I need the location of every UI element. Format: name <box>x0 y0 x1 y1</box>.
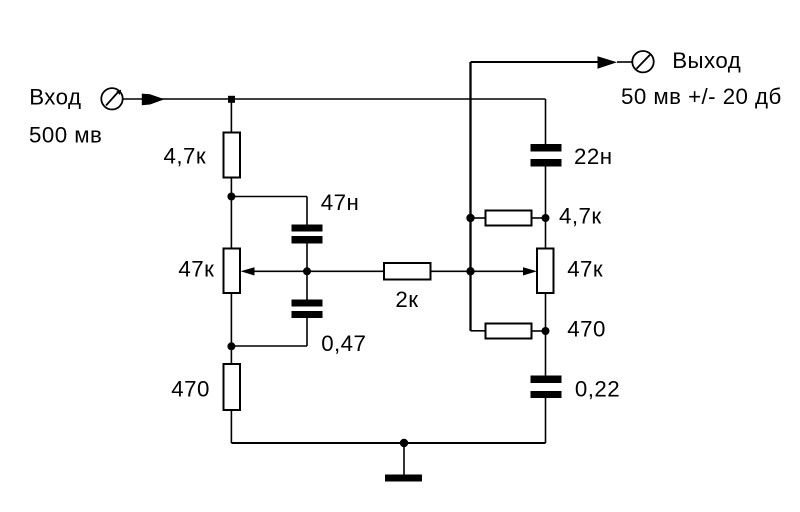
svg-text:Выход: Выход <box>672 48 741 73</box>
svg-text:47к: 47к <box>178 256 214 281</box>
svg-text:22н: 22н <box>574 144 612 169</box>
svg-text:4,7к: 4,7к <box>164 143 207 168</box>
svg-text:470: 470 <box>567 316 606 341</box>
svg-text:2к: 2к <box>395 287 418 312</box>
svg-text:0,22: 0,22 <box>575 377 620 402</box>
svg-text:4,7к: 4,7к <box>559 203 602 228</box>
svg-text:50 мв +/- 20 дб: 50 мв +/- 20 дб <box>621 84 782 109</box>
svg-text:500 мв: 500 мв <box>29 122 102 147</box>
svg-text:470: 470 <box>171 377 210 402</box>
svg-text:Вход: Вход <box>29 84 81 109</box>
svg-text:0,47: 0,47 <box>321 331 366 356</box>
svg-text:47н: 47н <box>321 190 359 215</box>
svg-text:47к: 47к <box>567 256 603 281</box>
